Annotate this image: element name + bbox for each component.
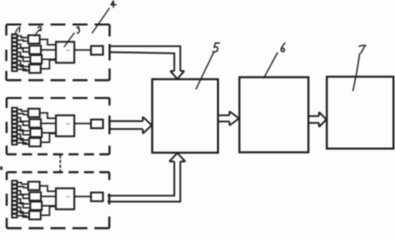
block 6 — [239, 77, 308, 152]
bus arrow D: block 5 to block 6 — [218, 111, 239, 125]
cluster group 2 — [12, 108, 103, 147]
dashed enclosure (group 3) — [7, 172, 110, 228]
bus arrow E: block 6 to block 7 — [308, 112, 326, 127]
bus arrow B: group 2 to left of block 5 — [109, 117, 152, 134]
block 5 — [152, 79, 218, 153]
label 5 with leader — [196, 43, 219, 89]
bus arrow A: group 1 to top of block 5 — [109, 46, 184, 79]
bus arrow C: group 3 to bottom of block 5 — [108, 153, 186, 202]
dashed enclosure (group 2) — [7, 98, 110, 154]
dotted continuation line between group 2 and group 3 — [59, 155, 61, 171]
label 3 with leader — [64, 27, 79, 47]
label 4 with leader — [92, 1, 116, 33]
label 7 with leader — [353, 45, 366, 90]
label 2 with leader — [35, 27, 42, 36]
stray mark at left edge — [0, 167, 3, 170]
cluster group 1 — [12, 34, 103, 73]
dashed enclosure 4 (group 1) — [6, 25, 109, 81]
cluster group 3 — [12, 181, 103, 220]
label 1 with leader — [14, 27, 19, 35]
block 7 — [327, 77, 394, 149]
label 6 with leader — [264, 43, 285, 78]
